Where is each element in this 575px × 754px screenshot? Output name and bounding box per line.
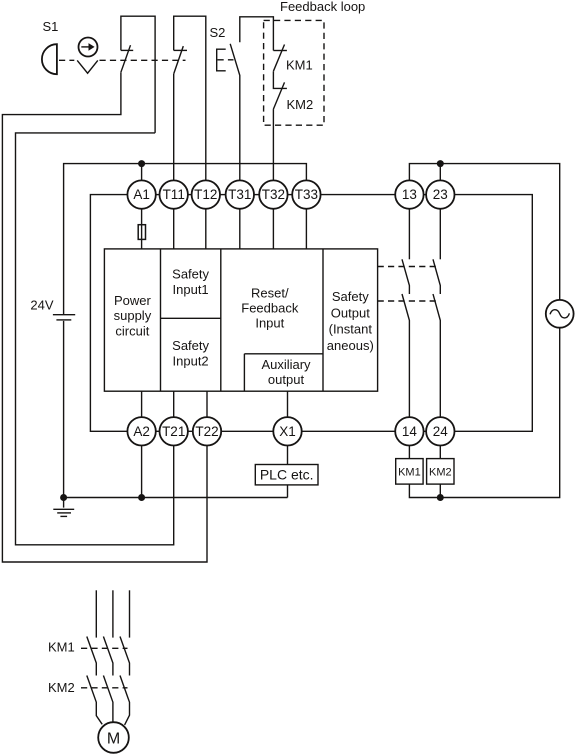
svg-text:Safety: Safety [172, 267, 209, 282]
svg-text:T11: T11 [163, 187, 185, 202]
svg-text:A2: A2 [133, 424, 150, 439]
svg-text:KM1: KM1 [286, 58, 313, 73]
svg-text:14: 14 [402, 424, 418, 439]
svg-text:24: 24 [433, 424, 449, 439]
svg-text:Safety: Safety [332, 289, 369, 304]
svg-text:Reset/: Reset/ [251, 285, 289, 300]
svg-text:T21: T21 [162, 424, 185, 439]
svg-text:KM1: KM1 [398, 466, 421, 478]
svg-text:KM2: KM2 [429, 466, 452, 478]
svg-text:KM2: KM2 [287, 97, 314, 112]
svg-text:Safety: Safety [172, 338, 209, 353]
svg-text:Input1: Input1 [173, 282, 209, 297]
svg-text:23: 23 [433, 187, 448, 202]
svg-text:T22: T22 [195, 424, 218, 439]
svg-text:Power: Power [114, 293, 152, 308]
svg-text:Input: Input [255, 316, 284, 331]
svg-text:KM2: KM2 [48, 680, 75, 695]
svg-text:(Instant: (Instant [329, 322, 373, 337]
svg-text:S2: S2 [210, 25, 226, 40]
svg-text:Feedback loop: Feedback loop [280, 0, 365, 14]
svg-text:T12: T12 [194, 187, 217, 202]
svg-text:PLC etc.: PLC etc. [260, 466, 314, 482]
svg-text:Input2: Input2 [173, 354, 209, 369]
svg-text:KM1: KM1 [48, 639, 75, 654]
svg-text:Auxiliary: Auxiliary [261, 357, 311, 372]
svg-text:13: 13 [402, 187, 417, 202]
svg-text:supply: supply [114, 308, 152, 323]
svg-text:Feedback: Feedback [241, 301, 299, 316]
svg-text:output: output [268, 372, 305, 387]
svg-text:24V: 24V [30, 298, 53, 313]
svg-text:A1: A1 [133, 187, 150, 202]
svg-text:T31: T31 [228, 187, 251, 202]
svg-text:S1: S1 [43, 19, 59, 34]
svg-text:T32: T32 [262, 187, 285, 202]
svg-text:X1: X1 [279, 424, 296, 439]
svg-text:M: M [107, 731, 120, 748]
svg-text:circuit: circuit [115, 323, 149, 338]
svg-text:T33: T33 [295, 187, 318, 202]
svg-text:aneous): aneous) [327, 338, 374, 353]
svg-text:Output: Output [331, 305, 370, 320]
